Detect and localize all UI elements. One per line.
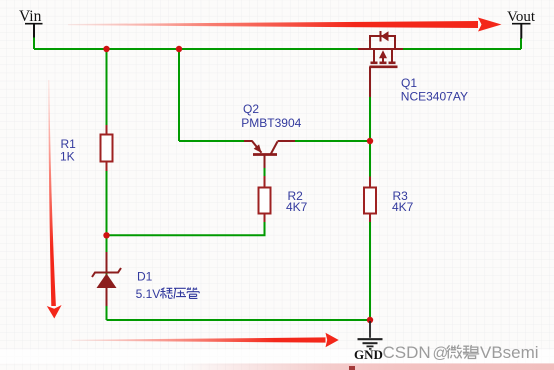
svg-text:D1: D1: [137, 269, 153, 283]
label R1 value: [60, 137, 76, 163]
label Q2 designator: [241, 102, 301, 130]
watermark band: [0, 350, 554, 364]
svg-text:Q1: Q1: [401, 76, 417, 90]
pin R2 top: [264, 176, 266, 188]
pin D1 top: [106, 252, 108, 273]
label D1 chinese 稳压管 strokes: [160, 288, 199, 299]
pin R3 top: [369, 177, 371, 188]
node junction gate: [367, 138, 373, 144]
watermark chinese 微碧 strokes: [447, 345, 479, 359]
svg-text:@: @: [433, 345, 449, 362]
svg-text:CSDN: CSDN: [383, 343, 431, 362]
node junction top rail R1: [103, 46, 109, 52]
svg-text:GND: GND: [354, 347, 383, 362]
wire bottom rail: [107, 319, 371, 321]
pin R3 bottom: [369, 213, 371, 222]
label D1 designator: [136, 269, 161, 301]
pin Q2 collector lead: [244, 140, 253, 142]
svg-text:4K7: 4K7: [286, 200, 308, 214]
svg-text:1K: 1K: [60, 149, 75, 163]
wire R1 branch vertical: [106, 49, 108, 235]
wire R2 bottom to feedback node: [107, 214, 265, 236]
pin D1 bottom: [106, 288, 108, 307]
wire mid horizontal Q2 to gate node: [280, 140, 370, 142]
op-amp none / transistor Q1 MOSFET: [370, 31, 398, 67]
watermark text CSDN: [383, 343, 539, 362]
ground: [354, 321, 383, 362]
wire Vout port drop: [520, 38, 522, 49]
pin Q1 source-drain rail: [358, 48, 403, 50]
resistor R3: [364, 188, 376, 214]
svg-text:Vout: Vout: [507, 9, 536, 25]
wire Vin port drop: [33, 37, 35, 49]
pin R2 bottom: [264, 213, 266, 222]
wire top rail Vin to Vout: [34, 48, 521, 50]
node junction ground: [367, 317, 373, 323]
pin Q2 emitter lead: [278, 140, 296, 142]
svg-text:5.1V: 5.1V: [136, 287, 161, 301]
transistor Q2: [252, 141, 278, 155]
label R2 value: [286, 189, 308, 214]
wire Q2 base down to R2: [264, 156, 266, 187]
pin Q1 gate stub: [369, 67, 371, 98]
pin R1 top: [106, 125, 108, 135]
wire arrow left annotation (down): [47, 80, 62, 319]
label Q1 designator: [401, 76, 468, 104]
svg-text:Q2: Q2: [243, 102, 259, 116]
resistor R1: [101, 135, 113, 162]
svg-text:PMBT3904: PMBT3904: [241, 116, 301, 130]
resistor R2: [259, 188, 271, 214]
diode D1 zener: [92, 268, 121, 288]
label R3 value: [392, 189, 414, 214]
watermark red blob: [349, 366, 355, 370]
wire Q2 feed vertical from top rail: [178, 49, 180, 141]
port Vin: [19, 8, 43, 38]
port Vout: [507, 9, 536, 39]
wire Q1 gate vertical: [369, 67, 371, 188]
wire arrow bottom annotation (to GND): [72, 333, 339, 348]
wire mid horizontal left to Q2: [179, 140, 250, 142]
wire D1 branch vertical: [106, 235, 108, 320]
pin Q2 base stub: [264, 155, 266, 168]
pin R1 bottom: [106, 161, 108, 171]
node junction top rail Q2 feed: [176, 46, 182, 52]
svg-text:NCE3407AY: NCE3407AY: [401, 90, 468, 104]
svg-text:Vin: Vin: [19, 8, 42, 25]
node junction feedback: [103, 232, 109, 238]
svg-text:VBsemi: VBsemi: [480, 343, 539, 362]
wire R3 bottom to ground rail: [369, 214, 371, 321]
wire arrow input annotation (top): [68, 18, 502, 32]
svg-text:4K7: 4K7: [392, 200, 414, 214]
